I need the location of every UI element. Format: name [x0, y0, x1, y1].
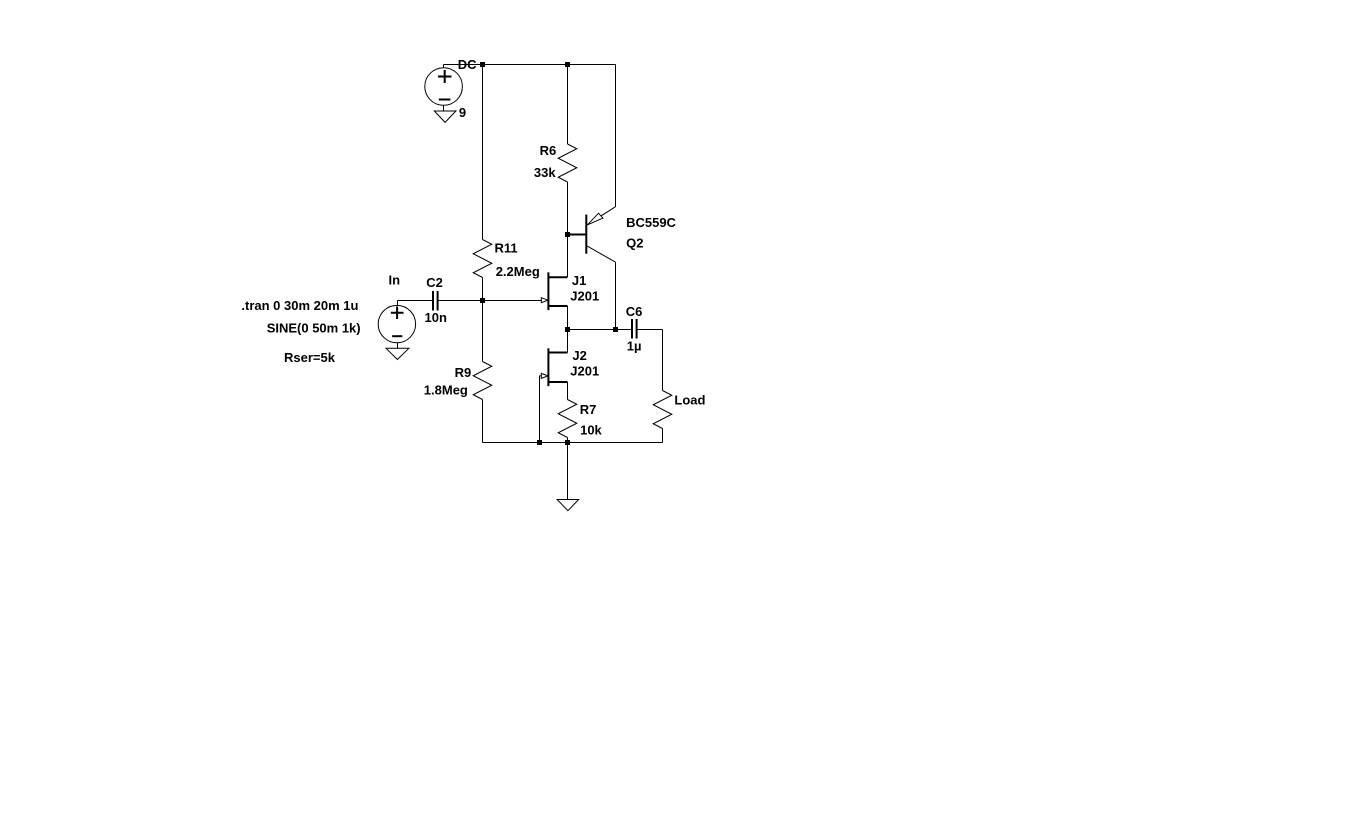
- svg-text:C2: C2: [426, 275, 443, 290]
- ground below In source: [386, 348, 409, 359]
- wire input node to J1 gate: [483, 300, 542, 302]
- wire C6 to Load: [638, 330, 663, 391]
- capacitor C2: [433, 291, 438, 311]
- svg-text:J201: J201: [570, 364, 599, 379]
- svg-text:J201: J201: [570, 289, 599, 304]
- wire Load bottom lead: [662, 429, 664, 443]
- node junction J1 source output: [565, 327, 570, 332]
- svg-text:9: 9: [459, 105, 466, 120]
- svg-text:Rser=5k: Rser=5k: [284, 350, 336, 365]
- transistor Q2 BC559C: [586, 207, 615, 262]
- wire output node horizontal to C6: [568, 329, 631, 331]
- wire R7 bottom lead: [567, 438, 569, 443]
- svg-text:R11: R11: [495, 241, 518, 256]
- jfet J1: [541, 272, 567, 310]
- svg-text:.tran 0 30m 20m 1u: .tran 0 30m 20m 1u: [241, 298, 358, 313]
- wire J1 source down through node to J2 drain: [567, 306, 569, 353]
- svg-text:R6: R6: [540, 143, 557, 158]
- svg-text:Q2: Q2: [626, 236, 643, 251]
- wire J2 source down to R7: [567, 382, 569, 400]
- svg-text:DC: DC: [458, 57, 477, 72]
- resistor R7: [558, 400, 577, 438]
- wire bottom rail: [483, 442, 663, 444]
- ground bottom: [557, 500, 579, 511]
- node junction DC rail left: [480, 62, 485, 67]
- wire R11 bottom through input node to R9: [482, 278, 484, 362]
- wire R9 bottom to rail: [482, 400, 484, 443]
- wire In source to C2: [398, 300, 433, 302]
- node junction Q2 base: [565, 232, 570, 237]
- svg-text:R7: R7: [580, 402, 597, 417]
- node junction Q2 collector output: [613, 327, 618, 332]
- svg-text:R9: R9: [455, 365, 472, 380]
- svg-text:1.8Meg: 1.8Meg: [424, 383, 468, 398]
- capacitor C6: [632, 319, 637, 339]
- voltage source V2 DC: [425, 65, 463, 112]
- svg-text:BC559C: BC559C: [626, 215, 676, 230]
- node junction J2 gate bottom: [537, 440, 542, 445]
- resistor Load: [653, 391, 672, 429]
- resistor R11: [473, 240, 492, 278]
- voltage source V1 In: [378, 301, 415, 349]
- svg-text:In: In: [389, 273, 401, 288]
- svg-text:33k: 33k: [534, 165, 556, 180]
- wire ground stem: [567, 443, 569, 500]
- wire top rail from DC source to right branch: [444, 64, 616, 66]
- wire C2 to input node: [439, 300, 483, 302]
- node junction input: [480, 298, 485, 303]
- svg-text:SINE(0 50m 1k): SINE(0 50m 1k): [267, 321, 361, 336]
- wire from top rail down to R6: [567, 65, 569, 145]
- svg-text:10n: 10n: [425, 310, 447, 325]
- svg-text:J1: J1: [572, 273, 586, 288]
- svg-text:J2: J2: [572, 348, 586, 363]
- wire Q2 collector down to output node: [615, 262, 617, 329]
- svg-text:1µ: 1µ: [627, 339, 642, 354]
- ground below DC source: [434, 111, 456, 122]
- jfet J2: [541, 348, 567, 386]
- resistor R6: [558, 144, 577, 182]
- wire J2 gate down to bottom rail: [540, 376, 542, 443]
- svg-text:C6: C6: [626, 304, 643, 319]
- wire from R6 down through base node to J1 drain: [567, 182, 569, 277]
- svg-text:Load: Load: [674, 393, 705, 408]
- wire from top rail down to R11: [482, 65, 484, 240]
- svg-text:10k: 10k: [580, 423, 602, 438]
- svg-text:2.2Meg: 2.2Meg: [496, 264, 540, 279]
- node junction DC rail right: [565, 62, 570, 67]
- wire Q2 base lead: [568, 234, 586, 236]
- resistor R9: [473, 362, 492, 400]
- node junction R7 bottom ground: [565, 440, 570, 445]
- wire right branch down to Q2 emitter: [615, 65, 617, 208]
